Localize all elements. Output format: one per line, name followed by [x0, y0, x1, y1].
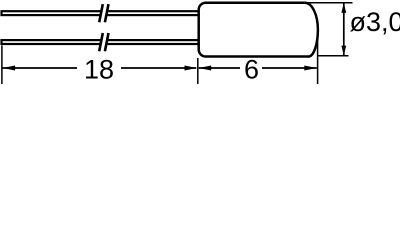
- break mark bottom lead: [99, 33, 108, 51]
- arrowhead 6 left: [199, 66, 212, 71]
- svg-text:6: 6: [244, 55, 259, 84]
- break mark top lead: [99, 4, 108, 22]
- arrowhead diameter down: [341, 46, 346, 56]
- dimension line 18: [2, 67, 196, 69]
- svg-text:18: 18: [84, 55, 114, 84]
- arrowhead diameter up: [341, 3, 346, 13]
- arrowhead 6 right: [304, 66, 317, 71]
- svg-text:ø3,0: ø3,0: [350, 7, 400, 37]
- dimension line diameter vertical: [343, 4, 345, 56]
- dimension line 6: [199, 67, 317, 69]
- lamp bulb body: [199, 3, 318, 57]
- extension line at bulb left: [197, 58, 199, 84]
- lead wire top: [2, 11, 199, 15]
- extension line right (ext of 6 dim, from dome apex): [317, 30, 319, 84]
- arrowhead 18 right: [185, 66, 198, 71]
- extension line diameter bottom: [318, 55, 349, 57]
- extension line left (at lead ends): [1, 46, 3, 85]
- arrowhead 18 left: [3, 66, 16, 71]
- extension line diameter top: [300, 2, 353, 4]
- lead wire bottom: [2, 40, 199, 44]
